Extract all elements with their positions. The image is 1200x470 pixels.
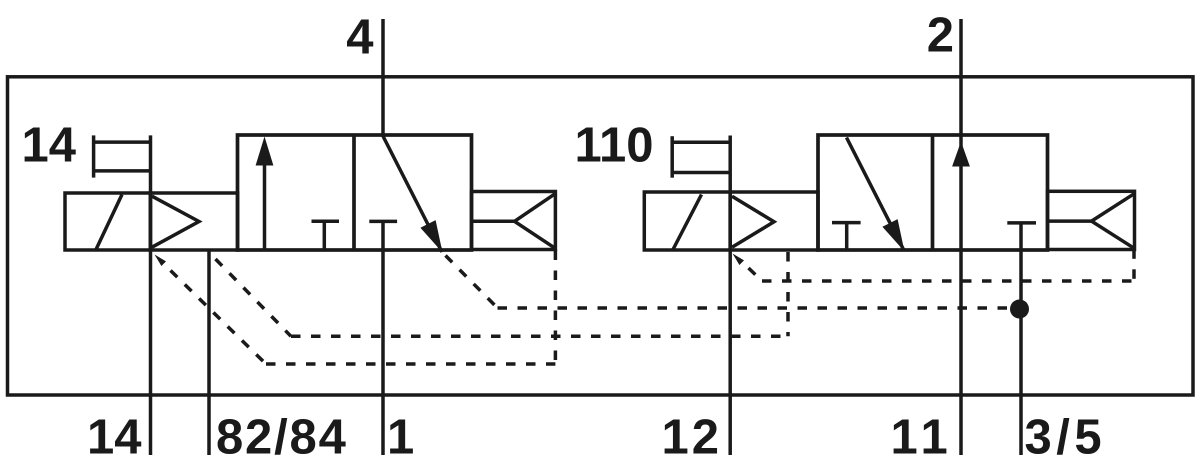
svg-text:2: 2 [927, 9, 954, 63]
manifold frame [8, 77, 1194, 395]
valve V2 square2 blocked port T bar [1007, 221, 1036, 225]
svg-text:82/84: 82/84 [216, 411, 348, 465]
pilot line L4 riser stub [1132, 250, 1136, 259]
valve V2 pilot triangle [732, 196, 774, 247]
valve V2 solenoid diagonal [673, 195, 702, 250]
valve V2 square1 diagonal arrow [847, 138, 905, 252]
pilot line L2 horizontal dashed [291, 335, 788, 339]
valve V1 square2 diagonal arrow [383, 137, 442, 253]
pilot line L4 diagonal dashed [749, 268, 763, 281]
valve V1 square1 up arrow [256, 137, 274, 251]
pilot line L1 horizontal dashed [266, 362, 555, 366]
valve V1 solenoid diagonal [96, 195, 122, 250]
pilot line L4 riser dashed [1132, 259, 1136, 281]
svg-text:12: 12 [662, 411, 723, 465]
valve V1 pilot triangle [152, 196, 199, 247]
valve V1 pilot-port 14 symbol [94, 135, 151, 177]
pilot line L1 riser stub [554, 250, 558, 261]
valve V1 right pilot box [472, 192, 556, 250]
pilot line L3 horizontal dashed [498, 306, 1020, 310]
valve V2 divider [931, 135, 935, 250]
pilot line L1 riser dashed [554, 260, 558, 364]
valve V1 square2 blocked port T bar [369, 220, 397, 224]
valve V2 right pilot triangle [1092, 194, 1135, 248]
valve V2 pilot triangle box [730, 192, 818, 250]
valve V2 right pilot midline [1048, 219, 1092, 223]
pilot line L4 horizontal dashed [762, 279, 1134, 283]
valve V1 solenoid box [65, 193, 150, 250]
port 82/84 line [207, 250, 211, 455]
valve V2 pilot-port 110 symbol [672, 136, 730, 178]
pilot line L1 diagonal dashed [171, 271, 267, 365]
svg-text:4: 4 [346, 10, 373, 64]
svg-text:110: 110 [574, 118, 653, 172]
valve V1 right pilot triangle [515, 194, 556, 248]
port 14 line [149, 135, 153, 455]
valve V2 square2 up arrow head [952, 142, 970, 167]
pilot line L2 diagonal dashed [216, 259, 292, 336]
junction dot [1010, 300, 1029, 319]
valve V1 divider [352, 135, 356, 250]
port 3/5 line [1019, 223, 1023, 455]
port 2 line [959, 19, 963, 455]
valve V2 body [818, 135, 1048, 250]
svg-text:14: 14 [87, 411, 142, 465]
pilot line L3 diagonal dashed [446, 256, 498, 309]
valve V2 solenoid box [644, 192, 730, 250]
port 1 line [381, 221, 385, 455]
port 4 line [381, 19, 385, 137]
pilot line L1 start arrowhead [155, 255, 167, 267]
valve V1 body [238, 135, 472, 250]
valve V1 right pilot midline [472, 220, 515, 224]
valve V1 square1 blocked port T [312, 221, 340, 249]
svg-text:11: 11 [891, 411, 954, 465]
pilot line L2 riser dashed [786, 252, 790, 336]
valve V2 right pilot box [1048, 191, 1135, 249]
svg-text:1: 1 [387, 411, 414, 465]
valve V2 square1 blocked port T [832, 223, 861, 249]
valve V1 pilot triangle box [150, 193, 237, 250]
port 12 line [728, 136, 732, 456]
pilot line L4 start arrowhead [733, 254, 745, 266]
svg-text:3/5: 3/5 [1025, 411, 1107, 465]
svg-text:14: 14 [21, 118, 76, 172]
